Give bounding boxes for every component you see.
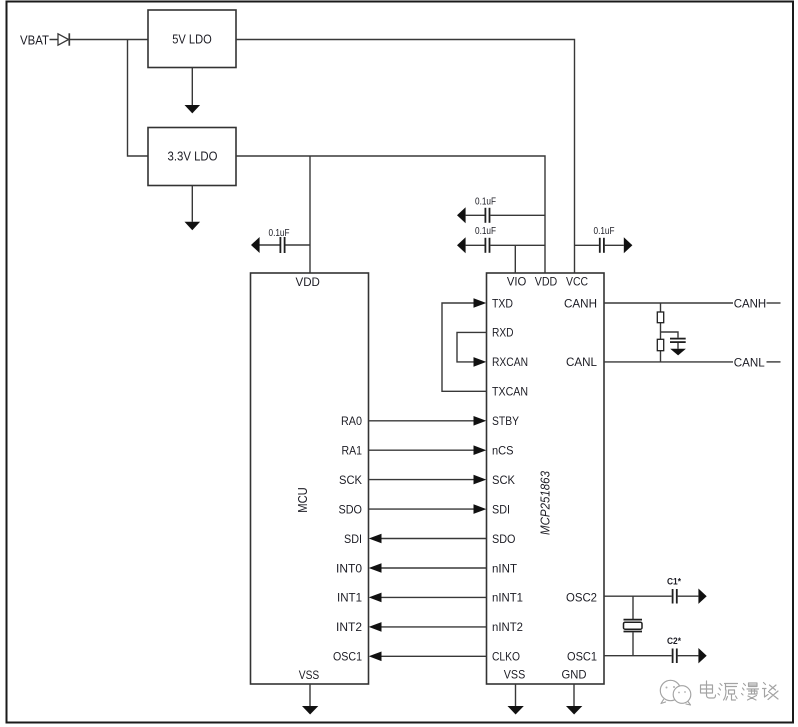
svg-text:VIO: VIO [507,275,527,289]
wire CLKO to OSC1 [369,652,487,662]
ground arrow MCP GND [566,684,582,715]
svg-text:0.1uF: 0.1uF [594,226,615,237]
wire CANL stub [767,361,781,363]
watermark logo bubbles [660,680,691,705]
svg-text:CANH: CANH [564,296,597,310]
wire SDO to SDI [369,504,487,514]
ground arrow 3.3V LDO [185,186,201,231]
svg-text:0.1uF: 0.1uF [475,196,496,207]
svg-text:SDO: SDO [492,532,516,546]
svg-text:RA1: RA1 [342,444,363,458]
wire RA0 to STBY [369,416,487,426]
wire VBAT branch down to 3.3V LDO input [128,40,149,157]
svg-text:INT0: INT0 [336,561,362,575]
svg-text:0.1uF: 0.1uF [475,226,496,237]
svg-text:VDD: VDD [296,275,321,289]
svg-text:CANL: CANL [566,355,597,369]
wire CANH stub [767,302,781,304]
svg-text:SDO: SDO [339,502,363,516]
svg-text:OSC1: OSC1 [567,650,597,664]
MCP251863 U4 [487,273,605,684]
svg-text:nINT1: nINT1 [492,591,523,605]
svg-text:INT1: INT1 [337,591,362,605]
svg-text:SCK: SCK [492,473,516,487]
svg-text:SCK: SCK [339,473,363,487]
svg-text:OSC1: OSC1 [333,650,362,664]
capacitor 0.1uF at MCP VDD (upper left) [457,196,545,223]
svg-text:RA0: RA0 [341,414,362,428]
svg-text:nINT: nINT [492,561,517,575]
svg-text:CANL: CANL [734,355,765,369]
svg-text:nCS: nCS [492,444,514,458]
svg-text:RXCAN: RXCAN [492,355,528,369]
wire OSC1 [604,655,672,657]
wire OSC2 [604,595,672,597]
wire VIO drop [514,245,516,273]
ground arrow MCP VSS [508,684,524,715]
resistor R1 [657,312,663,323]
wire split termination [660,303,662,362]
capacitor 0.1uF at MCP VIO (lower left) [457,226,545,253]
crystal X1 [624,596,643,656]
wire 5V LDO output to VCC [236,40,575,274]
svg-text:VSS: VSS [299,668,320,682]
wire CANH [604,302,733,304]
wire SCK to SCK [369,475,487,485]
svg-text:CANH: CANH [734,297,767,311]
svg-text:nINT2: nINT2 [492,620,523,634]
wire RA1 to nCS [369,445,487,455]
wire TXCAN to TXD loopback [442,298,487,391]
watermark text yuan [718,684,738,701]
watermark text man [742,683,759,700]
svg-text:C1*: C1* [667,577,681,588]
3.3V LDO U2 [148,128,236,186]
MCU U3 [251,273,369,684]
resistor R2 [657,339,663,350]
wire SDO to SDI MCU [369,534,487,544]
svg-text:TXD: TXD [492,296,513,310]
wire CANL [604,361,733,363]
wire 3.3V LDO output to MCP VDD [236,156,545,273]
wire nINT1 to INT1 [369,593,487,603]
svg-text:INT2: INT2 [336,620,362,634]
wire RXD to RXCAN loopback [457,332,487,366]
ground arrow MCU VSS [302,684,318,715]
wire to split cap [661,332,679,338]
svg-text:MCU: MCU [295,487,310,513]
svg-text:SDI: SDI [492,502,510,516]
svg-text:3.3V LDO: 3.3V LDO [168,148,218,163]
svg-text:CLKO: CLKO [492,650,520,664]
svg-text:C2*: C2* [667,636,681,647]
watermark text dian [701,681,716,698]
svg-text:VSS: VSS [504,668,526,682]
svg-text:STBY: STBY [492,414,519,428]
watermark text tan [763,683,779,700]
ground arrow split cap [670,343,686,355]
svg-text:OSC2: OSC2 [566,591,597,605]
svg-text:SDI: SDI [344,532,362,546]
capacitor split termination [670,339,686,343]
capacitor C1 [667,577,707,604]
svg-text:VCC: VCC [566,275,588,289]
svg-text:5V LDO: 5V LDO [172,32,212,47]
svg-text:VBAT: VBAT [20,32,49,47]
capacitor 0.1uF at MCU VDD [251,228,310,253]
svg-text:GND: GND [562,668,587,682]
ground arrow 5V LDO [185,68,201,114]
wire VBAT to 5V LDO input [50,39,149,41]
svg-text:MCP251863: MCP251863 [538,470,553,535]
diode D1 [58,33,69,45]
svg-text:VDD: VDD [535,275,558,289]
svg-text:TXCAN: TXCAN [492,385,528,399]
capacitor C2 [667,636,707,663]
wire 3.3V branch down to MCU VDD [309,156,311,273]
svg-text:RXD: RXD [492,326,514,340]
wire nINT to INT0 [369,563,487,573]
capacitor 0.1uF at MCP VCC (right) [575,226,633,253]
svg-text:0.1uF: 0.1uF [269,228,290,239]
wire nINT2 to INT2 [369,622,487,632]
5V LDO U1 [148,10,236,68]
